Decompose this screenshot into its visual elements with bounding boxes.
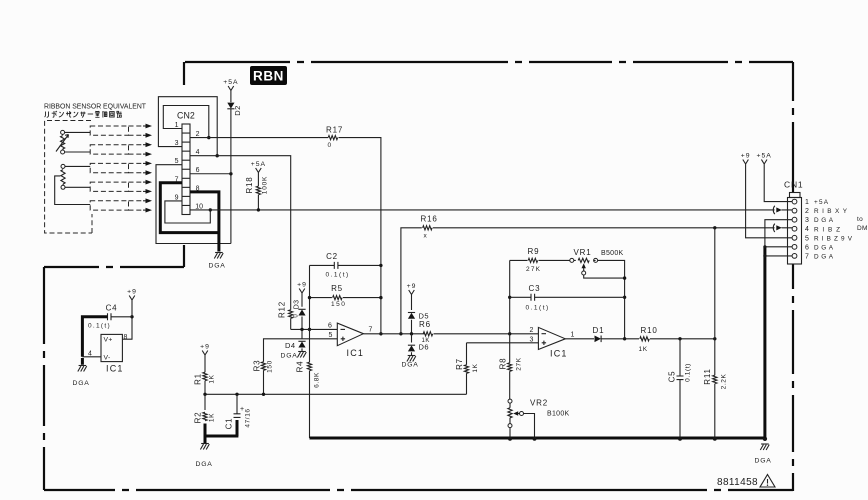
RBN block name label (250, 66, 287, 85)
svg-text:C2: C2 (326, 252, 338, 261)
svg-text:RIBBON SENSOR EQUIVALENT: RIBBON SENSOR EQUIVALENT (44, 102, 146, 111)
resistor R17 (326, 126, 343, 150)
svg-text:47/16: 47/16 (245, 408, 252, 427)
svg-text:150: 150 (331, 301, 346, 308)
wire RIBZ net: IC1a out rail to CN1 pin4 (401, 228, 792, 334)
wire C2/R5 left rail to IC1a pin6 (309, 265, 311, 329)
svg-text:8811458: 8811458 (717, 477, 758, 488)
resistor R9 (510, 247, 570, 273)
svg-text:1K: 1K (639, 346, 648, 353)
diode D2 (227, 93, 242, 174)
svg-text:C4: C4 (106, 304, 118, 313)
svg-text:3: 3 (805, 217, 809, 224)
diode D4 (285, 329, 306, 351)
svg-text:R1: R1 (194, 373, 203, 385)
svg-text:+9: +9 (297, 282, 307, 289)
svg-text:5: 5 (329, 332, 333, 339)
ground DGA (CN2 shield) (215, 252, 223, 254)
svg-text:DGA: DGA (209, 263, 226, 270)
svg-text:D6: D6 (419, 343, 430, 352)
svg-text:C1: C1 (225, 418, 234, 430)
ground DGA (D6) (408, 355, 416, 357)
svg-text:IC1: IC1 (347, 348, 365, 358)
wire pin4 net (RIBZ from sensor) (190, 156, 291, 310)
op-amp IC1 (stage 2) (530, 327, 575, 359)
svg-text:DM: DM (857, 225, 868, 232)
svg-text:+5A: +5A (223, 79, 238, 86)
wire bias rail (205, 393, 467, 395)
svg-text:R7: R7 (455, 358, 464, 370)
wire pin7 guard loop (thick) (160, 183, 219, 233)
resistor R2 (194, 394, 216, 423)
sensor RS1 (variable / XY sensor) (56, 130, 90, 154)
svg-text:DGA: DGA (73, 380, 90, 387)
wire VR1 right to feedback rail (598, 260, 625, 338)
ground DGA (D4) (298, 351, 306, 353)
svg-text:R16: R16 (421, 215, 438, 224)
svg-text:150: 150 (267, 360, 274, 373)
svg-text:+9: +9 (407, 283, 417, 290)
svg-text:C5: C5 (668, 371, 677, 383)
wire +9 to pin8 V+ (122, 303, 132, 340)
svg-text:C3: C3 (529, 284, 541, 293)
svg-text:D3: D3 (294, 300, 301, 310)
ribbon conductor dashed loops with arrows to CN2 (90, 124, 152, 213)
wire IC1b pin2 rail (509, 260, 511, 333)
wire C2/R5 right rail on IC1a output (379, 264, 382, 267)
capacitor C4 (88, 304, 132, 330)
svg-text:D1: D1 (593, 326, 605, 335)
diode D3 (294, 296, 306, 330)
svg-text:7: 7 (369, 327, 373, 334)
svg-text:CN1: CN1 (784, 180, 803, 190)
svg-text:V+: V+ (104, 337, 113, 344)
resistor R11 (703, 228, 728, 438)
wire R17 to IC1a output rail (339, 138, 381, 334)
svg-text:DGA: DGA (814, 244, 834, 251)
wire pin1 guard loop to pin2 net (163, 106, 209, 138)
warning triangle (760, 475, 775, 488)
svg-text:DGA: DGA (196, 461, 213, 468)
IC1 power pins block (88, 334, 128, 374)
resistor R8 (499, 334, 523, 399)
svg-text:1K: 1K (422, 338, 431, 344)
wire IC1a out to IC1b pin2 (434, 333, 539, 335)
svg-text:3: 3 (530, 337, 534, 344)
wire pin5 guard loop to pin6 net (156, 165, 231, 244)
svg-text:R12: R12 (278, 301, 287, 318)
wire R2/C1 to DGA (thick) (204, 420, 239, 443)
svg-text:R11: R11 (703, 368, 712, 384)
svg-text:1K: 1K (209, 413, 216, 422)
svg-text:+9: +9 (741, 153, 751, 160)
svg-text:+5A: +5A (757, 153, 772, 160)
svg-text:R9: R9 (528, 247, 540, 256)
wire CN1 pins6/7 DGA (thick) (765, 247, 792, 256)
svg-text:RBN: RBN (253, 69, 284, 84)
wire CN1 pin3 DGA drop (765, 220, 792, 247)
svg-text:R10: R10 (641, 326, 658, 335)
wire R12 to IC1a pin6 (291, 328, 338, 330)
svg-text:7: 7 (805, 253, 809, 260)
wire +5A to CN1 pin1 (764, 167, 792, 202)
svg-text:8: 8 (124, 334, 128, 341)
wire pin3 guard loop to pin4 net (158, 97, 217, 156)
svg-text:6: 6 (328, 323, 332, 330)
wire R7 to IC1b pin3 (467, 342, 539, 344)
svg-text:+5A: +5A (251, 161, 266, 168)
capacitor C1 (electrolytic 47/16) (225, 394, 252, 429)
svg-text:RIBZ: RIBZ (814, 226, 840, 233)
svg-text:IC1: IC1 (550, 349, 568, 359)
svg-text:R2: R2 (194, 412, 203, 424)
wire R3 top to IC1a pin5 (264, 339, 338, 395)
svg-text:2: 2 (530, 327, 534, 334)
resistor R5 (310, 284, 381, 308)
wire IC1a output (363, 333, 424, 335)
svg-text:2: 2 (805, 208, 809, 215)
svg-text:10: 10 (195, 203, 203, 210)
svg-text:DGA: DGA (281, 353, 298, 360)
svg-text:DGA: DGA (755, 458, 772, 465)
svg-text:27K: 27K (516, 357, 523, 370)
svg-text:R5: R5 (331, 284, 343, 293)
svg-text:6: 6 (805, 244, 809, 251)
ground DGA (IC1 power) (79, 365, 87, 367)
svg-text:DGA: DGA (814, 253, 834, 260)
wire pin8 to DGA (thick) (190, 192, 219, 252)
resistor R16 (421, 215, 438, 240)
diode D5 (408, 297, 429, 334)
svg-text:1K: 1K (472, 363, 479, 372)
wire pin6 net (+5 via D2) (190, 174, 231, 244)
svg-text:4: 4 (805, 226, 809, 233)
svg-text:B100K: B100K (547, 411, 570, 418)
svg-text:0.1(t): 0.1(t) (685, 363, 692, 382)
wire pin10 net to CN1 pin2 (RIBXY) (190, 209, 792, 211)
resistor R6 (419, 320, 433, 344)
wire IC1b output (565, 338, 594, 340)
svg-text:5: 5 (805, 235, 809, 242)
svg-text:R8: R8 (499, 358, 508, 370)
svg-text:6.8K: 6.8K (314, 372, 321, 388)
svg-text:R4: R4 (296, 361, 305, 373)
svg-text:0.1(t): 0.1(t) (88, 323, 111, 330)
diode D6 (408, 334, 429, 356)
connector entry mark (CN1 pin4) (773, 224, 775, 232)
svg-text:1K: 1K (209, 374, 216, 383)
title Japanese: ribbon sensor equivalent circuit (45, 111, 122, 118)
wire R10 to output node (650, 338, 715, 340)
wire +9 to CN1 pin5 (RIBZ9V) (746, 167, 793, 238)
svg-text:+9: +9 (200, 344, 210, 351)
connector CN2 (175, 110, 204, 214)
ground DGA (rail) (761, 443, 769, 445)
svg-text:IC1: IC1 (106, 364, 124, 374)
RBN module dash-dot border (44, 62, 793, 491)
svg-text:2.2K: 2.2K (721, 374, 728, 390)
resistor R4 (296, 329, 321, 438)
ground DGA (bias) (201, 443, 209, 445)
svg-text:R6: R6 (419, 320, 431, 329)
svg-text:CN2: CN2 (177, 110, 195, 120)
svg-text:B500K: B500K (601, 250, 624, 257)
svg-text:1: 1 (571, 332, 575, 339)
resistor R7 (455, 343, 479, 395)
svg-text:D2: D2 (233, 105, 242, 116)
wire pin2 net to R17 (190, 137, 328, 139)
svg-text:DGA: DGA (814, 217, 834, 224)
ribbon sensor outer dashed box (45, 121, 92, 234)
resistor R10 (639, 326, 658, 353)
svg-text:+: + (240, 406, 244, 413)
svg-text:R3: R3 (253, 360, 262, 372)
svg-text:100K: 100K (262, 176, 269, 194)
sensor RS2 (Z sensor with tap) (55, 164, 90, 204)
svg-text:DGA: DGA (402, 362, 419, 369)
resistor R1 (194, 358, 216, 395)
svg-text:VR2: VR2 (530, 399, 548, 408)
svg-text:+9: +9 (127, 289, 137, 296)
svg-text:V-: V- (104, 355, 111, 362)
resistor R3 (253, 360, 274, 373)
capacitor C3 (510, 284, 625, 312)
svg-text:D4: D4 (285, 341, 296, 350)
svg-text:6: 6 (196, 167, 200, 174)
resistor R18 (245, 175, 269, 210)
potentiometer VR2 B100K (508, 399, 570, 439)
svg-text:27K: 27K (526, 266, 541, 273)
connector entry mark (CN1 pin2) (773, 206, 775, 214)
ground rail DGA (thick) (310, 437, 765, 440)
capacitor C5 (668, 339, 692, 438)
svg-text:0.1(t): 0.1(t) (526, 305, 550, 312)
wire C4 left / V- to DGA (thick) (82, 317, 107, 365)
svg-text:VR1: VR1 (574, 248, 592, 257)
diode D1 (593, 326, 605, 342)
svg-text:to: to (857, 216, 863, 223)
svg-text:0.1(t): 0.1(t) (326, 272, 350, 279)
capacitor C2 (310, 252, 381, 279)
svg-text:R18: R18 (245, 176, 254, 193)
svg-text:0: 0 (328, 142, 332, 149)
potentiometer VR1 B500K (570, 248, 625, 278)
svg-text:+5A: +5A (814, 199, 829, 206)
connector CN1 (784, 180, 853, 265)
resistor R12 (278, 301, 300, 329)
svg-text:1: 1 (805, 199, 809, 206)
svg-text:R17: R17 (326, 126, 343, 135)
wire pin9 guard loop to pin10 net (165, 201, 210, 223)
op-amp IC1 (stage 1) (328, 323, 373, 359)
